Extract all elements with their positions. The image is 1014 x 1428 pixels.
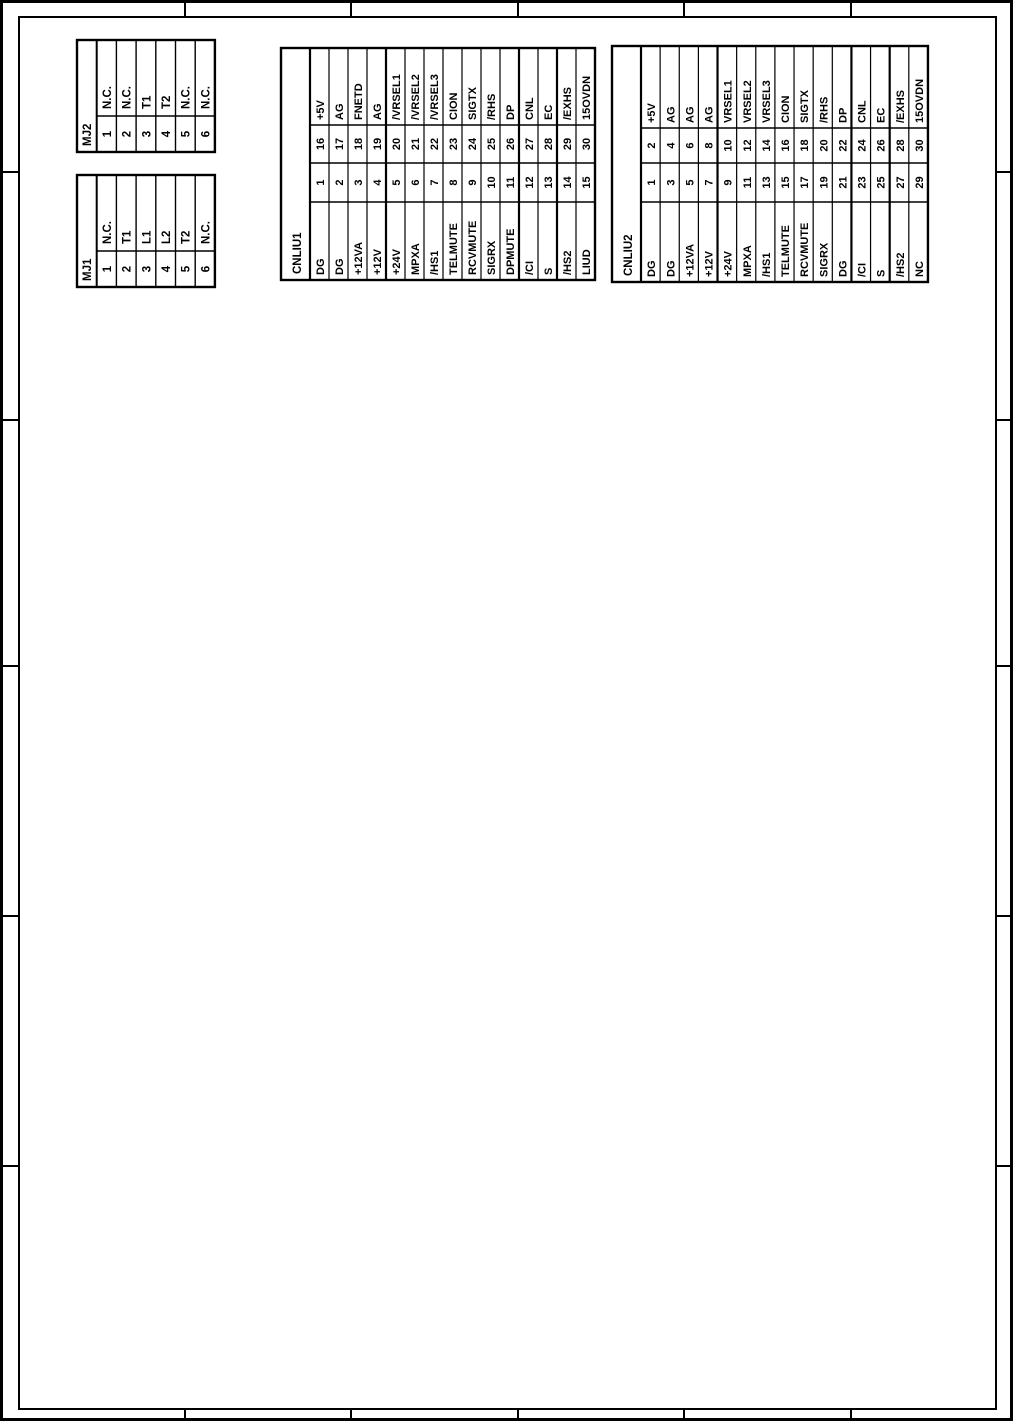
svg-text:4: 4 — [161, 130, 173, 137]
svg-text:N.C.: N.C. — [102, 86, 114, 109]
svg-text:4: 4 — [665, 142, 677, 149]
svg-text:/EXHS: /EXHS — [895, 90, 907, 123]
svg-text:6: 6 — [200, 266, 212, 272]
svg-text:DP: DP — [505, 105, 517, 120]
svg-text:+5V: +5V — [646, 102, 658, 123]
svg-text:16: 16 — [315, 138, 327, 150]
svg-text:25: 25 — [876, 176, 888, 188]
svg-text:9: 9 — [723, 179, 735, 185]
svg-text:N.C.: N.C. — [122, 86, 134, 109]
svg-text:1: 1 — [315, 179, 327, 185]
svg-text:/HS1: /HS1 — [761, 253, 773, 277]
svg-text:6: 6 — [684, 142, 696, 148]
svg-text:NC: NC — [914, 261, 926, 277]
svg-text:12: 12 — [524, 176, 536, 188]
svg-text:+12VA: +12VA — [684, 244, 696, 277]
svg-text:30: 30 — [581, 138, 593, 150]
svg-text:TELMUTE: TELMUTE — [448, 223, 460, 275]
svg-text:DG: DG — [665, 261, 677, 278]
svg-text:19: 19 — [372, 138, 384, 150]
svg-text:19: 19 — [818, 176, 830, 188]
svg-text:22: 22 — [837, 139, 849, 151]
svg-text:13: 13 — [761, 176, 773, 188]
svg-text:15OVDN: 15OVDN — [581, 76, 593, 120]
svg-text:/RHS: /RHS — [818, 97, 830, 123]
svg-text:TELMUTE: TELMUTE — [780, 225, 792, 277]
svg-text:25: 25 — [486, 138, 498, 150]
svg-text:2: 2 — [334, 179, 346, 185]
svg-text:N.C.: N.C. — [200, 221, 212, 244]
svg-text:AG: AG — [665, 107, 677, 124]
svg-text:L2: L2 — [161, 231, 173, 244]
svg-text:/RHS: /RHS — [486, 94, 498, 120]
svg-text:29: 29 — [914, 176, 926, 188]
svg-text:VRSEL2: VRSEL2 — [742, 80, 754, 123]
svg-text:DPMUTE: DPMUTE — [505, 229, 517, 275]
svg-text:DG: DG — [315, 259, 327, 276]
svg-text:5: 5 — [391, 179, 403, 185]
svg-text:+24V: +24V — [391, 248, 403, 275]
svg-text:20: 20 — [391, 138, 403, 150]
svg-text:VRSEL1: VRSEL1 — [723, 80, 735, 123]
svg-text:11: 11 — [505, 177, 517, 189]
svg-text:/HS2: /HS2 — [895, 253, 907, 277]
svg-text:28: 28 — [895, 139, 907, 151]
svg-text:10: 10 — [723, 139, 735, 151]
svg-text:N.C.: N.C. — [102, 221, 114, 244]
svg-text:2: 2 — [646, 142, 658, 148]
svg-text:26: 26 — [876, 139, 888, 151]
svg-text:12: 12 — [742, 139, 754, 151]
svg-text:9: 9 — [467, 179, 479, 185]
svg-text:8: 8 — [704, 142, 716, 148]
svg-text:2: 2 — [122, 266, 134, 272]
svg-text:2: 2 — [122, 131, 134, 137]
svg-text:DP: DP — [837, 108, 849, 123]
svg-text:DG: DG — [837, 261, 849, 278]
svg-text:+12V: +12V — [372, 248, 384, 275]
svg-text:30: 30 — [914, 139, 926, 151]
svg-text:3: 3 — [665, 179, 677, 185]
svg-text:3: 3 — [141, 266, 153, 272]
svg-text:DG: DG — [646, 261, 658, 278]
svg-text:15: 15 — [581, 176, 593, 188]
svg-text:10: 10 — [486, 176, 498, 188]
svg-text:24: 24 — [467, 137, 479, 150]
svg-text:VRSEL3: VRSEL3 — [761, 80, 773, 123]
svg-text:14: 14 — [562, 176, 574, 189]
svg-text:13: 13 — [543, 176, 555, 188]
svg-text:FNETD: FNETD — [353, 83, 365, 120]
svg-text:7: 7 — [704, 179, 716, 185]
svg-text:23: 23 — [857, 176, 869, 188]
svg-text:MPXA: MPXA — [410, 243, 422, 275]
svg-text:/VRSEL3: /VRSEL3 — [429, 74, 441, 120]
svg-text:RCVMUTE: RCVMUTE — [467, 221, 479, 275]
svg-text:16: 16 — [780, 139, 792, 151]
svg-text:5: 5 — [181, 265, 193, 272]
svg-text:21: 21 — [410, 138, 422, 150]
svg-text:AG: AG — [372, 104, 384, 121]
svg-text:T2: T2 — [181, 231, 193, 244]
svg-text:29: 29 — [562, 138, 574, 150]
svg-text:AG: AG — [684, 107, 696, 124]
svg-text:1: 1 — [102, 130, 114, 137]
svg-text:/EXHS: /EXHS — [562, 87, 574, 120]
svg-text:/HS2: /HS2 — [562, 251, 574, 275]
svg-text:3: 3 — [353, 179, 365, 185]
svg-text:RCVMUTE: RCVMUTE — [799, 223, 811, 277]
svg-text:/CI: /CI — [857, 263, 869, 277]
svg-text:/VRSEL2: /VRSEL2 — [410, 74, 422, 120]
svg-text:LIUD: LIUD — [581, 249, 593, 275]
svg-text:S: S — [876, 270, 888, 277]
svg-text:SIGRX: SIGRX — [486, 240, 498, 275]
svg-text:3: 3 — [141, 131, 153, 137]
svg-text:+12V: +12V — [704, 250, 716, 277]
svg-text:1: 1 — [102, 265, 114, 272]
svg-text:EC: EC — [543, 105, 555, 120]
svg-text:23: 23 — [448, 138, 460, 150]
svg-text:T2: T2 — [161, 96, 173, 109]
svg-text:+5V: +5V — [315, 99, 327, 120]
svg-text:6: 6 — [200, 131, 212, 137]
svg-text:+12VA: +12VA — [353, 242, 365, 275]
svg-text:14: 14 — [761, 139, 773, 152]
svg-text:EC: EC — [876, 108, 888, 123]
svg-text:/HS1: /HS1 — [429, 251, 441, 275]
svg-text:L1: L1 — [141, 230, 153, 244]
svg-text:11: 11 — [742, 177, 754, 189]
svg-text:28: 28 — [543, 138, 555, 150]
svg-text:5: 5 — [181, 130, 193, 137]
svg-text:CNLIU1: CNLIU1 — [292, 232, 304, 274]
svg-text:18: 18 — [799, 139, 811, 151]
svg-text:6: 6 — [410, 179, 422, 185]
svg-text:N.C.: N.C. — [181, 86, 193, 109]
svg-text:27: 27 — [895, 176, 907, 188]
svg-text:15: 15 — [780, 176, 792, 188]
svg-text:SIGTX: SIGTX — [799, 89, 811, 123]
svg-text:17: 17 — [799, 176, 811, 188]
svg-text:CION: CION — [448, 92, 460, 120]
svg-text:+24V: +24V — [723, 250, 735, 277]
svg-text:CNLIU2: CNLIU2 — [623, 234, 635, 276]
svg-text:MPXA: MPXA — [742, 245, 754, 277]
svg-text:26: 26 — [505, 138, 517, 150]
svg-text:AG: AG — [704, 107, 716, 124]
svg-text:27: 27 — [524, 138, 536, 150]
svg-text:21: 21 — [837, 176, 849, 188]
svg-text:24: 24 — [857, 139, 869, 152]
svg-text:1: 1 — [646, 179, 658, 185]
svg-text:5: 5 — [684, 179, 696, 185]
svg-text:S: S — [543, 268, 555, 275]
svg-text:DG: DG — [334, 259, 346, 276]
svg-text:/CI: /CI — [524, 261, 536, 275]
svg-text:4: 4 — [161, 265, 173, 272]
svg-text:7: 7 — [429, 179, 441, 185]
svg-text:T1: T1 — [122, 230, 134, 244]
svg-text:SIGTX: SIGTX — [467, 86, 479, 120]
svg-text:CION: CION — [780, 95, 792, 123]
svg-text:17: 17 — [334, 138, 346, 150]
svg-text:SIGRX: SIGRX — [818, 242, 830, 277]
svg-text:AG: AG — [334, 104, 346, 121]
svg-text:20: 20 — [818, 139, 830, 151]
svg-text:8: 8 — [448, 179, 460, 185]
svg-text:CNL: CNL — [857, 100, 869, 123]
svg-text:/VRSEL1: /VRSEL1 — [391, 74, 403, 120]
svg-text:22: 22 — [429, 138, 441, 150]
svg-text:T1: T1 — [141, 95, 153, 109]
svg-text:4: 4 — [372, 179, 384, 186]
svg-text:CNL: CNL — [524, 97, 536, 120]
svg-text:15OVDN: 15OVDN — [914, 79, 926, 123]
svg-text:MJ1: MJ1 — [82, 258, 94, 281]
svg-text:N.C.: N.C. — [200, 86, 212, 109]
svg-text:18: 18 — [353, 138, 365, 150]
svg-text:MJ2: MJ2 — [82, 124, 94, 146]
